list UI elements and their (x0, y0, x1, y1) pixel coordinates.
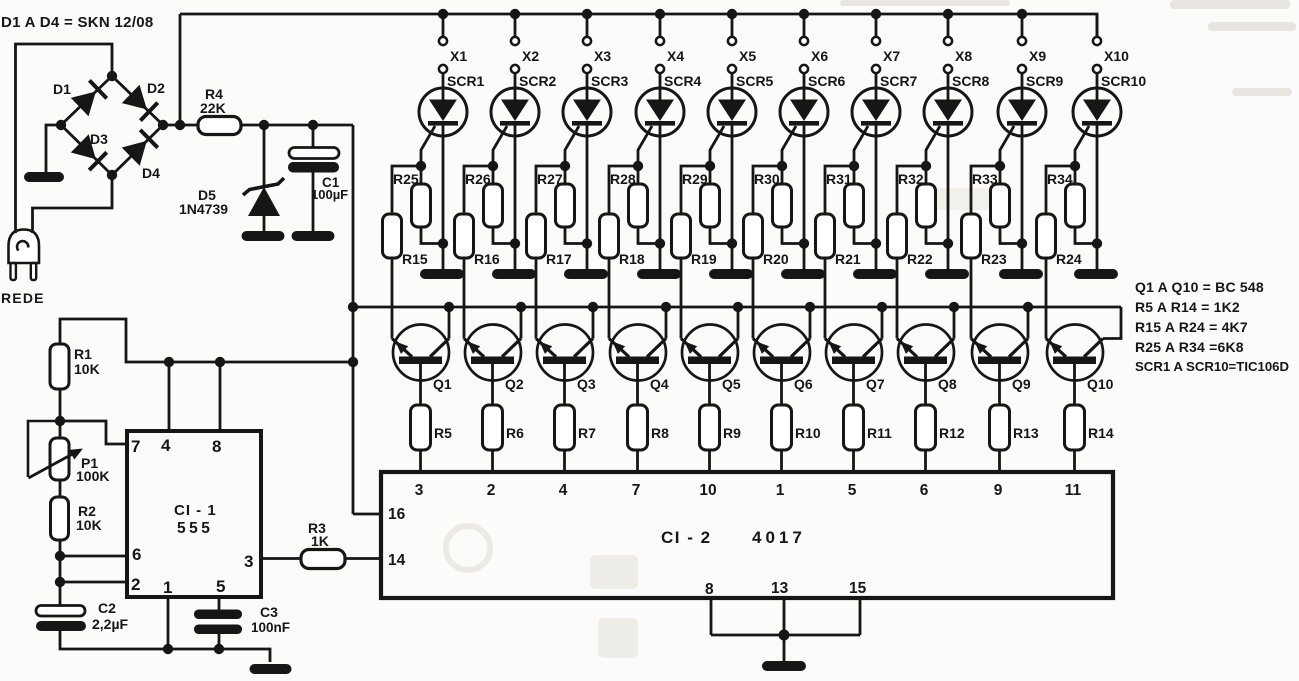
svg-text:100nF: 100nF (251, 620, 290, 635)
label R19 (691, 251, 717, 267)
resistor R34 (1066, 166, 1098, 244)
node: bridge negative (56, 120, 66, 130)
ground: SCR9 cathode (999, 269, 1043, 279)
svg-text:Q2: Q2 (505, 376, 524, 392)
svg-text:R15 A R24 = 4K7: R15 A R24 = 4K7 (1135, 319, 1248, 335)
wire: R15 to Q1 emitter (391, 258, 394, 339)
wire: riser to anode top rail (179, 14, 182, 125)
wire: 555 pin 4 (168, 362, 171, 431)
pin 11 label (1065, 482, 1082, 499)
wire: SCR2 gate (493, 126, 507, 166)
node: cathode junction 1 (438, 238, 448, 248)
node: cathode junction 10 (1092, 238, 1102, 248)
wire: 555 pin 8 (219, 362, 222, 431)
pin 10 label (699, 482, 716, 499)
svg-text:1: 1 (163, 578, 172, 597)
svg-text:SCR10: SCR10 (1101, 73, 1146, 89)
label X10 (1104, 48, 1129, 64)
wire: top anode rail (180, 14, 1097, 37)
node: gate junction 8 (921, 161, 931, 171)
wire: gate junction to R24 (1046, 166, 1075, 214)
svg-text:6: 6 (920, 482, 929, 499)
svg-text:SCR1 A SCR10=TIC106D: SCR1 A SCR10=TIC106D (1135, 359, 1289, 374)
svg-text:100µF: 100µF (311, 187, 348, 202)
svg-text:15: 15 (849, 580, 867, 597)
wire: plug right prong to bridge AC bottom (33, 175, 113, 233)
note: R15 A R24 = 4K7 (1135, 319, 1248, 335)
resistor R13 (990, 405, 1010, 450)
node: cathode junction 8 (943, 238, 953, 248)
node: C3 ground (214, 644, 224, 654)
svg-text:X1: X1 (450, 48, 467, 64)
label X9 (1029, 48, 1046, 64)
wire: P1 to R2 (59, 480, 62, 497)
svg-text:1K: 1K (311, 533, 329, 549)
svg-text:SCR8: SCR8 (952, 73, 990, 89)
label R32 (898, 171, 924, 187)
transistor Q1 (392, 307, 449, 405)
node: gate junction 10 (1070, 161, 1080, 171)
ground: SCR10 cathode (1074, 269, 1118, 279)
ground: C1 (292, 231, 335, 241)
label R25 (393, 171, 419, 187)
label R13 (1013, 425, 1039, 441)
label R17 (546, 251, 572, 267)
label D1 (53, 81, 71, 97)
wire: plug left prong to bridge AC top (16, 44, 113, 233)
label R6 (506, 425, 524, 441)
svg-text:R24: R24 (1056, 251, 1082, 267)
svg-text:R34: R34 (1047, 171, 1073, 187)
wire: pins 8 13 15 common (711, 634, 860, 637)
wire: R5 to 4017 output pin 3 (419, 450, 422, 472)
wire: 555 pin 6 (60, 555, 127, 558)
label SCR6 (808, 73, 846, 89)
pin 9 label (994, 482, 1003, 499)
wire: gate junction to R19 (681, 166, 710, 214)
SCR2 thyristor (491, 88, 539, 269)
label R14 (1088, 425, 1114, 441)
ground: SCR7 cathode (853, 269, 897, 279)
resistor R20 (744, 214, 763, 258)
label SCR3 (591, 73, 629, 89)
svg-text:100K: 100K (76, 468, 109, 484)
svg-text:3: 3 (415, 482, 424, 499)
label Q10 (1087, 376, 1114, 392)
svg-text:Q10: Q10 (1087, 376, 1114, 392)
node: gate junction 9 (995, 161, 1005, 171)
svg-text:5: 5 (848, 482, 857, 499)
resistor R27 (556, 166, 588, 244)
svg-text:555: 555 (177, 520, 213, 537)
capacitor C2 (36, 606, 86, 632)
svg-text:D1: D1 (53, 81, 71, 97)
label C2 2,2uF (92, 600, 129, 632)
note: R5 A R14 = 1K2 (1135, 299, 1240, 315)
transistor Q5 (681, 307, 738, 405)
label SCR1 (447, 73, 485, 89)
label R16 (474, 251, 500, 267)
SCR6 thyristor (780, 88, 828, 269)
wire: R21 to Q7 emitter (824, 258, 827, 339)
SCR10 thyristor (1073, 88, 1121, 269)
wire: SCR4 gate (638, 126, 652, 166)
pin 3 label (415, 482, 424, 499)
svg-text:6: 6 (132, 545, 141, 564)
wire: R12 to 4017 output pin 6 (924, 450, 927, 472)
svg-text:22K: 22K (200, 100, 226, 116)
SCR7 thyristor (852, 88, 900, 269)
node: bridge AC top (107, 71, 117, 81)
node: cathode junction 9 (1017, 238, 1027, 248)
wire: R14 to 4017 output pin 11 (1073, 450, 1076, 472)
resistor R14 (1065, 405, 1085, 450)
terminal X8 (944, 14, 952, 100)
label CI-2 4017 (661, 528, 806, 547)
resistor R9 (700, 405, 720, 450)
resistor R29 (701, 166, 733, 244)
svg-text:R25 A R34 =6K8: R25 A R34 =6K8 (1135, 339, 1244, 355)
label SCR8 (952, 73, 990, 89)
svg-text:8: 8 (705, 581, 714, 598)
pin 2 label (131, 575, 140, 594)
label D3 (90, 131, 108, 147)
label R27 (537, 171, 563, 187)
node: bridge positive (158, 120, 168, 130)
resistor R2 (51, 497, 69, 540)
label SCR2 (519, 73, 557, 89)
label X8 (955, 48, 972, 64)
svg-text:16: 16 (388, 506, 406, 523)
svg-text:R28: R28 (610, 171, 636, 187)
wire: SCR3 gate (565, 126, 579, 166)
pin 8 label (705, 581, 714, 598)
wire: SCR10 gate (1075, 126, 1089, 166)
label R12 (939, 425, 965, 441)
label R10 (795, 425, 821, 441)
label R20 (763, 251, 789, 267)
wire: R20 to Q6 emitter (752, 258, 755, 339)
wire: R3 to 4017 pin 14 (345, 557, 381, 560)
label Q7 (866, 376, 885, 392)
pin 7 label (131, 437, 140, 456)
label Q3 (577, 376, 596, 392)
svg-text:Q5: Q5 (722, 376, 741, 392)
resistor R7 (555, 405, 575, 450)
resistor R19 (672, 214, 691, 258)
svg-text:2: 2 (487, 482, 496, 499)
node: collector bus junction 9 (1023, 302, 1033, 312)
label Q6 (794, 376, 813, 392)
svg-text:R29: R29 (682, 171, 708, 187)
svg-text:X6: X6 (811, 48, 828, 64)
node: gate junction 7 (849, 161, 859, 171)
wire: R18 to Q4 emitter (608, 258, 611, 339)
ground: SCR2 cathode (492, 269, 536, 279)
wire: collector bus (353, 306, 1121, 309)
zener diode D5 (243, 125, 284, 231)
svg-text:R25: R25 (393, 171, 419, 187)
svg-text:R20: R20 (763, 251, 789, 267)
svg-text:D1 A D4 = SKN 12/08: D1 A D4 = SKN 12/08 (1, 14, 154, 31)
resistor R18 (600, 214, 619, 258)
wire: R17 to Q3 emitter (535, 258, 538, 339)
svg-text:R27: R27 (537, 171, 563, 187)
terminal X10 (1093, 14, 1101, 100)
pin 1 label (776, 482, 785, 499)
label C1 100uF (311, 175, 348, 202)
ground: oscillator (250, 664, 292, 674)
svg-text:R22: R22 (907, 251, 933, 267)
transistor Q6 (753, 307, 810, 405)
svg-text:4: 4 (559, 482, 568, 499)
resistor R23 (962, 214, 981, 258)
ground: 4017 (762, 661, 806, 671)
node: gate junction 3 (560, 161, 570, 171)
svg-text:C2: C2 (98, 600, 116, 616)
svg-text:R26: R26 (465, 171, 491, 187)
ground: SCR1 cathode (420, 269, 464, 279)
pin 4 label (559, 482, 568, 499)
svg-text:2: 2 (131, 575, 140, 594)
pin 15 label (849, 580, 867, 597)
potentiometer P1 (28, 421, 83, 480)
label R9 (723, 425, 741, 441)
terminal X3 (583, 14, 591, 100)
svg-text:X2: X2 (522, 48, 539, 64)
wire: bridge negative to ground (46, 125, 61, 172)
bridge rectifier diamond (61, 76, 163, 175)
node: top rail X2 tap (510, 9, 520, 19)
wire: gate junction to R22 (897, 166, 926, 214)
label X4 (667, 48, 684, 64)
ground: SCR4 cathode (637, 269, 681, 279)
transistor Q4 (609, 307, 666, 405)
node: cathode junction 3 (582, 238, 592, 248)
node: top rail X9 tap (1017, 9, 1027, 19)
wire: R24 to Q10 emitter (1045, 258, 1048, 339)
node: collector bus junction 8 (949, 302, 959, 312)
SCR8 thyristor (924, 88, 972, 269)
node: pin 2 junction (55, 577, 65, 587)
wire: 555 pin 7 (60, 421, 127, 444)
node: R1 P1 junction (55, 416, 65, 426)
resistor R31 (845, 166, 877, 244)
mains plug (9, 230, 40, 281)
label R1 10K (74, 346, 100, 377)
wire: 555 pin 3 to R3 (261, 557, 301, 560)
wire: SCR6 gate (782, 126, 796, 166)
wire: R6 to 4017 output pin 2 (491, 450, 494, 472)
node: 555 supply tap (348, 357, 358, 367)
transistor Q8 (897, 307, 954, 405)
pin 13 label (771, 580, 789, 597)
svg-text:R13: R13 (1013, 425, 1039, 441)
svg-text:13: 13 (771, 580, 789, 597)
label CI-1 555 (174, 502, 217, 537)
svg-text:14: 14 (388, 552, 406, 569)
wire: R10 to 4017 output pin 1 (780, 450, 783, 472)
svg-text:SCR5: SCR5 (736, 73, 774, 89)
wire: 555 pin 5 (218, 597, 221, 610)
wire: R11 to 4017 output pin 5 (852, 450, 855, 472)
svg-text:R15: R15 (402, 251, 428, 267)
resistor R4 (198, 117, 241, 135)
svg-text:R30: R30 (754, 171, 780, 187)
node: collector bus junction 7 (877, 302, 887, 312)
resistor R25 (412, 166, 444, 244)
node: collector bus tap (348, 302, 358, 312)
label D4 (142, 165, 160, 181)
node: reset common (779, 630, 790, 641)
node: gate junction 2 (488, 161, 498, 171)
svg-text:SCR2: SCR2 (519, 73, 557, 89)
svg-text:Q4: Q4 (650, 376, 669, 392)
label C3 100nF (251, 604, 290, 635)
label SCR9 (1026, 73, 1064, 89)
terminal X9 (1018, 14, 1026, 100)
terminal X5 (728, 14, 736, 100)
label Q9 (1012, 376, 1031, 392)
wire: gate junction to R21 (825, 166, 854, 214)
resistor R33 (991, 166, 1023, 244)
terminal X7 (872, 14, 880, 100)
node: bridge AC bottom (107, 170, 117, 180)
svg-text:11: 11 (1065, 482, 1082, 499)
node: collector bus junction 4 (661, 302, 671, 312)
node: cathode junction 4 (655, 238, 665, 248)
node: cathode junction 5 (727, 238, 737, 248)
svg-text:10K: 10K (76, 517, 102, 533)
svg-text:Q1 A Q10 = BC 548: Q1 A Q10 = BC 548 (1135, 279, 1264, 295)
node: top rail X8 tap (943, 9, 953, 19)
wire: 4017 pin 15 (859, 598, 862, 635)
SCR4 thyristor (636, 88, 684, 269)
label SCR5 (736, 73, 774, 89)
wire: 555 pin 1 (167, 597, 170, 649)
wire: R16 to Q2 emitter (463, 258, 466, 339)
svg-text:Q1: Q1 (433, 376, 452, 392)
wire: 4017 pin 8 (710, 598, 713, 635)
wire: R22 to Q8 emitter (896, 258, 899, 339)
ground: SCR3 cathode (564, 269, 608, 279)
pin 7 label (632, 482, 641, 499)
svg-text:X5: X5 (739, 48, 756, 64)
wire: SCR5 gate (710, 126, 724, 166)
svg-text:Q6: Q6 (794, 376, 813, 392)
svg-text:1: 1 (776, 482, 785, 499)
svg-text:R5 A R14 = 1K2: R5 A R14 = 1K2 (1135, 299, 1240, 315)
node: gate junction 5 (705, 161, 715, 171)
label X3 (594, 48, 611, 64)
svg-text:SCR9: SCR9 (1026, 73, 1064, 89)
svg-text:8: 8 (212, 437, 221, 456)
resistor R21 (816, 214, 835, 258)
wire: R4 to zener rail corner (241, 124, 353, 127)
label R34 (1047, 171, 1073, 187)
label SCR7 (880, 73, 918, 89)
SCR3 thyristor (563, 88, 611, 269)
svg-text:R6: R6 (506, 425, 524, 441)
svg-text:10K: 10K (74, 361, 100, 377)
wire: gate junction to R15 (392, 166, 421, 214)
terminal X6 (800, 14, 808, 100)
svg-text:D3: D3 (90, 131, 108, 147)
transistor Q7 (825, 307, 882, 405)
transistor Q3 (536, 307, 593, 405)
resistor R8 (628, 405, 648, 450)
node: collector bus junction 2 (516, 302, 526, 312)
node: cathode junction 2 (510, 238, 520, 248)
resistor R11 (844, 405, 864, 450)
label Q8 (938, 376, 957, 392)
wire: C2 to oscillator ground rail (60, 631, 270, 662)
pin 4 label (161, 436, 171, 455)
label Q1 (433, 376, 452, 392)
svg-text:SCR4: SCR4 (664, 73, 702, 89)
wire: R19 to Q5 emitter (680, 258, 683, 339)
label R26 (465, 171, 491, 187)
node: pin 6 junction (55, 551, 65, 561)
wire: R1 to P1 (59, 389, 62, 438)
label R33 (972, 171, 998, 187)
wire: SCR9 gate (1000, 126, 1014, 166)
svg-text:R9: R9 (723, 425, 741, 441)
resistor R1 (50, 344, 69, 389)
wire: +V to 4017 pin 16 (353, 513, 381, 516)
svg-text:SCR3: SCR3 (591, 73, 629, 89)
label R31 (826, 171, 852, 187)
wire: +V rail vertical (352, 125, 355, 514)
pin 2 label (487, 482, 496, 499)
wire: reset to ground (783, 635, 786, 661)
diode D4 (122, 130, 158, 166)
node: cathode junction 7 (871, 238, 881, 248)
wire: gate junction to R16 (464, 166, 493, 214)
svg-text:X9: X9 (1029, 48, 1046, 64)
wire: 4017 pin 13 (783, 598, 786, 635)
node: gate junction 6 (777, 161, 787, 171)
label R30 (754, 171, 780, 187)
svg-text:Q7: Q7 (866, 376, 885, 392)
pin 6 label (132, 545, 141, 564)
capacitor C1 (288, 125, 339, 231)
svg-text:R19: R19 (691, 251, 717, 267)
note: bridge diode types D1 A D4 = SKN 12/08 (1, 14, 154, 31)
pin 1 label (163, 578, 172, 597)
pin 8 label (212, 437, 221, 456)
svg-text:X8: X8 (955, 48, 972, 64)
label R18 (619, 251, 645, 267)
resistor R30 (773, 166, 805, 244)
label X1 (450, 48, 467, 64)
label P1 100K (76, 455, 109, 484)
svg-text:X4: X4 (667, 48, 684, 64)
wire: R23 to Q9 emitter (970, 258, 973, 339)
svg-text:Q9: Q9 (1012, 376, 1031, 392)
node: collector bus junction 1 (444, 302, 454, 312)
note: SCR1 A SCR10 = TIC106D (1135, 359, 1289, 374)
node: gate junction 4 (633, 161, 643, 171)
label R28 (610, 171, 636, 187)
pin 3 label (244, 552, 253, 571)
svg-text:X10: X10 (1104, 48, 1129, 64)
label X7 (883, 48, 900, 64)
node: top rail feed (175, 120, 185, 130)
resistor R32 (917, 166, 949, 244)
terminal X1 (439, 14, 447, 100)
svg-text:2,2µF: 2,2µF (92, 616, 129, 632)
